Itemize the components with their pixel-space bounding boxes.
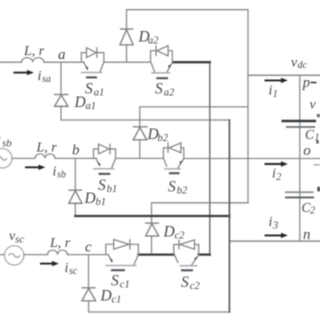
svg-text:dc: dc: [298, 60, 308, 71]
svg-text:2: 2: [310, 206, 315, 217]
svg-text:sa: sa: [42, 74, 51, 85]
svg-text:S: S: [98, 177, 106, 194]
svg-text:sb: sb: [2, 138, 12, 150]
svg-text:D: D: [100, 288, 112, 305]
svg-text:c: c: [85, 240, 92, 256]
svg-text:S: S: [111, 272, 119, 289]
svg-text:a1: a1: [86, 101, 97, 112]
svg-text:i: i: [38, 69, 42, 84]
svg-text:i: i: [65, 261, 69, 276]
svg-text:L, r: L, r: [23, 44, 45, 59]
svg-text:c2: c2: [175, 230, 186, 241]
svg-text:b2: b2: [158, 133, 169, 144]
svg-text:a: a: [58, 47, 66, 63]
svg-text:a2: a2: [164, 87, 175, 98]
svg-text:n: n: [303, 227, 311, 243]
svg-text:3: 3: [272, 221, 278, 232]
svg-text:b1: b1: [96, 197, 107, 208]
svg-text:b1: b1: [107, 184, 118, 195]
svg-text:S: S: [155, 80, 163, 97]
svg-text:a2: a2: [148, 35, 159, 46]
svg-text:b: b: [72, 143, 80, 159]
svg-text:c2: c2: [190, 281, 201, 292]
svg-text:b2: b2: [177, 186, 188, 197]
svg-text:c1: c1: [112, 295, 122, 306]
svg-text:p: p: [302, 75, 310, 91]
svg-text:L, r: L, r: [36, 141, 58, 156]
svg-text:D: D: [74, 94, 86, 111]
svg-text:S: S: [85, 80, 93, 97]
svg-text:2: 2: [276, 172, 281, 183]
svg-text:S: S: [181, 274, 189, 291]
svg-text:o: o: [303, 143, 311, 159]
svg-text:v: v: [310, 98, 317, 113]
svg-text:i: i: [269, 215, 273, 230]
svg-text:D: D: [163, 223, 175, 240]
svg-text:sc: sc: [15, 234, 24, 246]
svg-text:L, r: L, r: [49, 236, 71, 251]
svg-text:D: D: [84, 190, 96, 207]
svg-text:sb: sb: [57, 170, 66, 181]
svg-text:a1: a1: [94, 87, 105, 98]
svg-text:1: 1: [273, 89, 278, 100]
svg-text:i: i: [53, 165, 57, 180]
svg-text:c1: c1: [120, 279, 130, 290]
svg-text:C: C: [305, 127, 315, 142]
svg-text:sc: sc: [69, 266, 78, 277]
svg-text:S: S: [168, 179, 176, 196]
svg-text:1: 1: [315, 133, 320, 144]
